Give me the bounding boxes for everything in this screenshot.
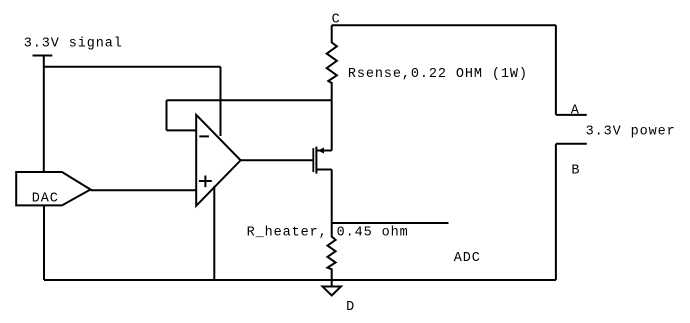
power symbol 3.3V signal <box>33 56 53 173</box>
svg-text:DAC: DAC <box>32 192 59 207</box>
svg-text:D: D <box>346 300 355 315</box>
wire DAC output to non-inverting input <box>91 189 197 191</box>
op-amp U1 body <box>196 115 240 206</box>
svg-text:3.3V signal: 3.3V signal <box>24 37 123 52</box>
wire bottom rail <box>44 279 556 281</box>
wire right vertical upper <box>555 25 557 115</box>
resistor R_heater zigzag <box>328 223 336 287</box>
transistor Q1 channel bar <box>315 147 317 174</box>
wire below DAC <box>43 205 45 280</box>
svg-text:3.3V power: 3.3V power <box>586 124 676 139</box>
wire signal rail <box>44 66 221 68</box>
op-amp minus sign <box>199 135 209 137</box>
svg-text:C: C <box>332 13 341 28</box>
wire op-amp output to gate <box>241 159 313 161</box>
DAC U2 body <box>16 172 90 205</box>
wire drain vertical <box>331 100 333 150</box>
wire terminal B stub <box>556 143 587 145</box>
transistor Q1 arrow <box>318 148 324 154</box>
wire terminal A stub <box>556 114 587 116</box>
wire feedback horizontal <box>167 99 332 101</box>
wire feedback vertical <box>166 100 168 130</box>
svg-text:ADC: ADC <box>454 251 481 266</box>
svg-text:B: B <box>571 163 580 178</box>
transistor Q1 gate bar <box>312 148 314 172</box>
svg-text:R_heater, 0.45 ohm: R_heater, 0.45 ohm <box>247 226 409 241</box>
wire right vertical lower <box>555 144 557 280</box>
wire inverting input stub <box>167 129 197 131</box>
transistor Q1 drain lead <box>316 150 331 152</box>
op-amp plus sign <box>199 176 212 188</box>
resistor Rsense zigzag <box>327 25 337 100</box>
wire source vertical <box>331 170 333 224</box>
wire op-amp V- supply <box>213 186 215 280</box>
wire op-amp V+ supply <box>220 67 222 136</box>
wire top rail from C <box>332 24 556 26</box>
transistor Q1 source lead <box>316 169 331 171</box>
wire ADC sense <box>332 222 449 224</box>
ground symbol <box>323 287 342 296</box>
svg-text:A: A <box>571 104 580 119</box>
svg-text:Rsense,0.22 OHM (1W): Rsense,0.22 OHM (1W) <box>348 67 528 82</box>
